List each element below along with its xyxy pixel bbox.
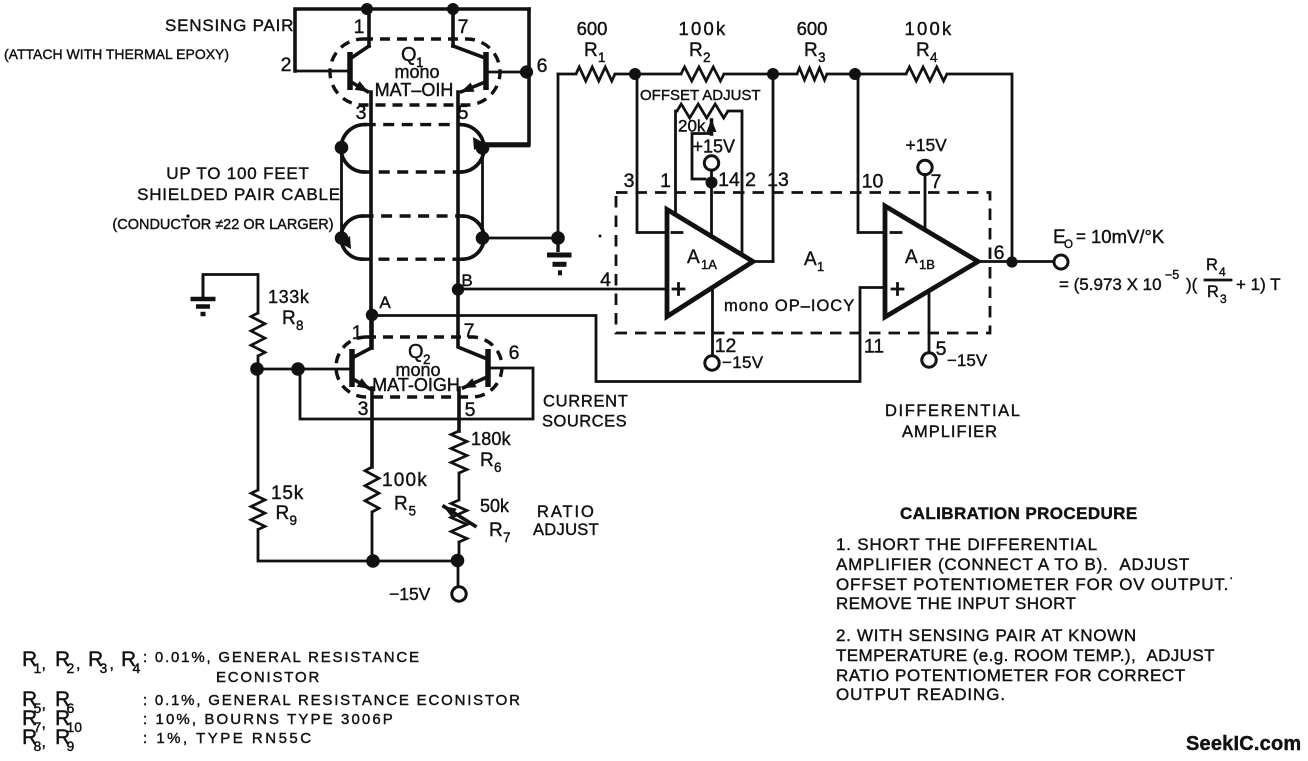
svg-text:,: ,: [42, 715, 46, 732]
svg-text:14: 14: [718, 169, 740, 191]
svg-text:SHIELDED PAIR CABLE: SHIELDED PAIR CABLE: [137, 185, 341, 204]
svg-text:5: 5: [936, 338, 947, 360]
svg-text:R: R: [282, 308, 296, 329]
svg-text:3: 3: [624, 170, 635, 192]
svg-text:4: 4: [930, 50, 938, 65]
svg-text:4: 4: [133, 660, 141, 676]
svg-text:2: 2: [745, 169, 756, 191]
svg-text:6: 6: [537, 55, 548, 77]
svg-text:R: R: [804, 40, 818, 61]
svg-text:OUTPUT READING.: OUTPUT READING.: [836, 685, 1006, 704]
svg-text:100k: 100k: [679, 18, 728, 39]
svg-text:R: R: [394, 494, 408, 515]
svg-text:180k: 180k: [471, 429, 512, 449]
svg-text:(ATTACH WITH THERMAL EPOXY): (ATTACH WITH THERMAL EPOXY): [4, 46, 229, 62]
svg-text:2: 2: [703, 50, 711, 65]
svg-text:OFFSET POTENTIOMETER FOR OV OU: OFFSET POTENTIOMETER FOR OV OUTPUT.: [836, 575, 1229, 594]
svg-text:3: 3: [356, 102, 367, 124]
svg-text:R: R: [916, 40, 930, 61]
svg-text:,: ,: [42, 656, 46, 673]
svg-text:5: 5: [34, 700, 42, 716]
svg-text:CALIBRATION PROCEDURE: CALIBRATION PROCEDURE: [900, 504, 1138, 523]
svg-text:1: 1: [352, 322, 363, 344]
svg-text:6: 6: [509, 342, 520, 364]
svg-text:1: 1: [34, 660, 42, 676]
svg-text:RATIO: RATIO: [537, 503, 596, 521]
svg-text:A: A: [905, 247, 918, 268]
svg-text:)(: )(: [1186, 275, 1198, 294]
svg-text:1B: 1B: [919, 257, 935, 272]
svg-text:A: A: [687, 247, 700, 268]
svg-text:7: 7: [503, 530, 511, 545]
svg-text:SeekIC.com: SeekIC.com: [1186, 733, 1301, 755]
svg-text:9: 9: [290, 513, 298, 528]
svg-text:10: 10: [67, 719, 83, 735]
svg-text:R: R: [1207, 283, 1219, 301]
svg-text:mono: mono: [394, 62, 439, 82]
svg-text:−5: −5: [1165, 268, 1179, 282]
svg-text:5: 5: [409, 504, 417, 519]
svg-text:4: 4: [600, 269, 611, 291]
svg-text:7: 7: [34, 719, 42, 735]
svg-text:,: ,: [110, 656, 114, 673]
svg-text:AMPLIFIER (CONNECT A TO B). A: AMPLIFIER (CONNECT A TO B). ADJUST: [836, 555, 1190, 574]
svg-text:1A: 1A: [701, 257, 717, 272]
svg-text:R: R: [584, 40, 598, 61]
svg-text:TEMPERATURE (e.g. ROOM TEMP.),: TEMPERATURE (e.g. ROOM TEMP.), ADJUST: [836, 646, 1215, 665]
svg-text:133k: 133k: [268, 287, 310, 307]
svg-text:,: ,: [42, 734, 46, 751]
svg-text:3: 3: [1220, 292, 1227, 306]
svg-text:,: ,: [76, 656, 80, 673]
svg-text:7: 7: [464, 320, 475, 342]
svg-text:ECONISTOR: ECONISTOR: [216, 669, 321, 686]
svg-text:+ 1) T: + 1) T: [1236, 275, 1281, 294]
svg-text:R: R: [489, 520, 503, 541]
svg-text:15k: 15k: [271, 483, 304, 504]
svg-text:13: 13: [767, 169, 789, 191]
svg-text:8: 8: [34, 738, 42, 754]
svg-text:10mV/°K: 10mV/°K: [1091, 226, 1165, 247]
svg-text:= (5.973 X 10: = (5.973 X 10: [1059, 275, 1162, 294]
svg-text:: 0.01%, GENERAL RESISTANCE: : 0.01%, GENERAL RESISTANCE: [143, 649, 421, 666]
svg-text:1: 1: [817, 259, 824, 274]
svg-text:1: 1: [598, 50, 606, 65]
svg-text:11: 11: [864, 336, 884, 358]
svg-text:,: ,: [42, 696, 46, 713]
svg-text:−15V: −15V: [389, 584, 431, 604]
svg-text:MAT-OIGH: MAT-OIGH: [372, 375, 460, 395]
svg-text:6: 6: [994, 242, 1005, 264]
svg-text:4: 4: [1219, 265, 1226, 279]
svg-text:SENSING PAIR: SENSING PAIR: [165, 16, 294, 35]
svg-text:100k: 100k: [905, 18, 954, 39]
svg-text:MAT–OIH: MAT–OIH: [375, 80, 454, 100]
svg-text:20k: 20k: [678, 117, 706, 136]
svg-text:: 10%, BOURNS TYPE 3006P: : 10%, BOURNS TYPE 3006P: [143, 711, 395, 728]
svg-text:: 1%, TYPE RN55C: : 1%, TYPE RN55C: [143, 730, 314, 747]
svg-text:1: 1: [354, 16, 365, 38]
svg-text:UP TO 100 FEET: UP TO 100 FEET: [166, 164, 309, 183]
svg-text:O: O: [1064, 239, 1073, 251]
svg-text:+15V: +15V: [693, 137, 736, 157]
svg-text:B: B: [461, 271, 472, 290]
svg-text:600: 600: [797, 18, 828, 39]
svg-text:−15V: −15V: [722, 353, 764, 372]
svg-text:100k: 100k: [382, 470, 428, 491]
svg-text:+15V: +15V: [906, 135, 948, 155]
svg-text:(CONDUCTOR ≠22 OR LARGER): (CONDUCTOR ≠22 OR LARGER): [112, 217, 333, 233]
svg-text:ADJUST: ADJUST: [533, 521, 599, 539]
svg-text:6: 6: [67, 700, 75, 716]
svg-text:600: 600: [577, 18, 608, 39]
svg-text:mono OP–IOCY: mono OP–IOCY: [724, 297, 855, 315]
svg-text:R: R: [480, 450, 494, 471]
svg-text:5: 5: [458, 102, 469, 124]
svg-text:8: 8: [296, 318, 304, 333]
svg-text:7: 7: [458, 16, 469, 38]
svg-text:3: 3: [358, 398, 369, 420]
svg-text:10: 10: [862, 171, 884, 193]
svg-text:SOURCES: SOURCES: [542, 413, 627, 431]
svg-text:2: 2: [281, 54, 292, 76]
svg-text:7: 7: [931, 171, 942, 193]
svg-text:AMPLIFIER: AMPLIFIER: [902, 423, 998, 441]
svg-text:=: =: [1076, 227, 1086, 246]
svg-text:R: R: [1206, 256, 1218, 274]
svg-text:DIFFERENTIAL: DIFFERENTIAL: [885, 402, 1022, 420]
svg-text:2. WITH SENSING PAIR AT KNOWN: 2. WITH SENSING PAIR AT KNOWN: [836, 626, 1137, 645]
svg-text:−15V: −15V: [947, 351, 988, 370]
svg-text:6: 6: [494, 460, 502, 475]
svg-text:2: 2: [67, 660, 75, 676]
svg-text:: 0.1%, GENERAL RESISTANCE ECO: : 0.1%, GENERAL RESISTANCE ECONISTOR: [143, 692, 522, 709]
svg-text:5: 5: [465, 399, 476, 421]
svg-text:3: 3: [100, 660, 108, 676]
svg-text:R: R: [276, 503, 290, 524]
svg-text:CURRENT: CURRENT: [543, 393, 629, 411]
svg-text:OFFSET ADJUST: OFFSET ADJUST: [640, 87, 761, 104]
svg-text:REMOVE THE INPUT SHORT: REMOVE THE INPUT SHORT: [836, 594, 1076, 613]
svg-text:3: 3: [818, 50, 826, 65]
svg-text:·: ·: [1229, 570, 1234, 585]
svg-text:A: A: [804, 249, 817, 270]
svg-text:R: R: [689, 40, 703, 61]
svg-text:1: 1: [660, 170, 671, 192]
svg-text:RATIO POTENTIOMETER FOR CORREC: RATIO POTENTIOMETER FOR CORRECT: [836, 666, 1186, 685]
svg-text:1. SHORT THE DIFFERENTIAL: 1. SHORT THE DIFFERENTIAL: [836, 535, 1098, 554]
svg-text:9: 9: [67, 738, 75, 754]
svg-text:50k: 50k: [480, 496, 510, 516]
svg-text:A: A: [379, 293, 391, 312]
